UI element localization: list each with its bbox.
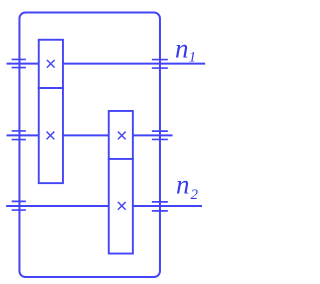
bearing right shaft2 [152,131,168,139]
shaft 1 [7,63,206,65]
bearing left shaft1 [12,59,26,67]
gear G3 on shaft 2 [109,111,133,159]
x mark gear G1 [47,60,55,68]
housing frame [19,12,160,277]
shaft 3 [6,205,202,207]
svg-text:1: 1 [189,50,197,66]
x mark gear G3 [118,132,126,140]
bearing left shaft2 [12,131,26,140]
bearing left shaft3 [12,201,26,210]
gear G1 on shaft 1 [39,40,63,88]
bearing right shaft3 [152,202,168,211]
bearing right shaft1 [152,60,168,69]
gear G2 on shaft 2 [39,88,63,183]
x mark gear G2 [47,132,55,140]
x mark gear G4 [118,202,126,210]
svg-text:n: n [175,34,189,64]
gear G4 on shaft 3 [109,159,133,254]
svg-text:2: 2 [191,187,199,203]
shaft 2 [7,134,173,136]
svg-text:n: n [176,170,190,200]
